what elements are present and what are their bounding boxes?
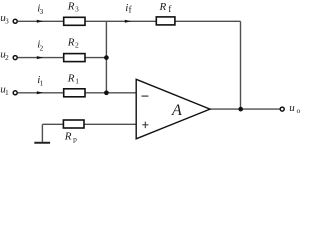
svg-text:R: R — [67, 36, 75, 48]
svg-text:2: 2 — [75, 41, 79, 50]
svg-text:3: 3 — [5, 17, 9, 26]
svg-text:p: p — [73, 135, 77, 144]
svg-text:3: 3 — [75, 5, 79, 14]
svg-text:R: R — [67, 72, 75, 84]
svg-text:R: R — [67, 0, 75, 12]
svg-text:3: 3 — [40, 7, 44, 16]
svg-text:R: R — [64, 131, 72, 143]
svg-text:u: u — [289, 102, 295, 114]
svg-text:o: o — [297, 106, 301, 115]
svg-text:A: A — [171, 102, 182, 119]
svg-text:1: 1 — [40, 79, 44, 88]
svg-text:2: 2 — [5, 53, 9, 62]
svg-text:1: 1 — [75, 76, 79, 85]
svg-text:R: R — [159, 1, 167, 13]
svg-text:2: 2 — [40, 44, 44, 53]
svg-text:1: 1 — [5, 88, 9, 97]
